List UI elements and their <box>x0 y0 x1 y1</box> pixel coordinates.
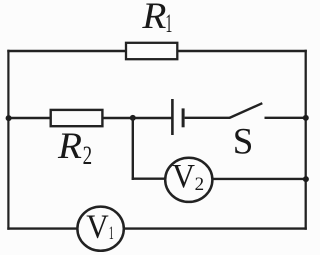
label R2 <box>57 126 92 170</box>
voltmeter V2 <box>165 158 212 202</box>
label V1 <box>86 209 114 246</box>
svg-text:2: 2 <box>195 174 205 195</box>
wire: battery to switch pivot <box>185 117 230 119</box>
battery cell: short plate <box>182 108 185 127</box>
wire: switch right contact to right side <box>265 117 306 119</box>
wire: right side of outer loop <box>305 50 307 230</box>
switch S: blade (open) <box>230 103 263 118</box>
node: junction middle branch at right side <box>303 115 309 121</box>
label V2 <box>172 158 204 195</box>
node: junction V2 branch at right side <box>303 176 309 182</box>
svg-text:2: 2 <box>83 141 93 170</box>
node: junction at R2 right / V2 tap <box>130 115 136 121</box>
label R1 <box>141 0 172 38</box>
svg-text:R: R <box>141 0 166 37</box>
svg-text:1: 1 <box>165 9 172 38</box>
wire: V2 tap vertical drop <box>132 118 134 180</box>
wire: V2 meter to right side <box>212 178 306 180</box>
svg-text:S: S <box>233 122 254 163</box>
voltmeter V1 <box>77 207 123 251</box>
battery cell: long plate <box>171 99 174 135</box>
wire: top side of outer loop <box>7 50 307 52</box>
svg-text:1: 1 <box>109 223 114 244</box>
svg-text:V: V <box>172 158 195 195</box>
resistor R2 <box>51 110 103 126</box>
svg-text:V: V <box>86 209 109 246</box>
wire: middle branch (left node to battery) <box>8 117 172 119</box>
resistor R1 <box>126 43 177 59</box>
wire: left side of outer loop <box>7 50 9 230</box>
wire: V2 branch horizontal to meter <box>132 177 167 179</box>
svg-text:R: R <box>57 126 82 167</box>
node: junction on left wire <box>6 115 12 121</box>
wire: bottom side of outer loop <box>7 227 307 229</box>
